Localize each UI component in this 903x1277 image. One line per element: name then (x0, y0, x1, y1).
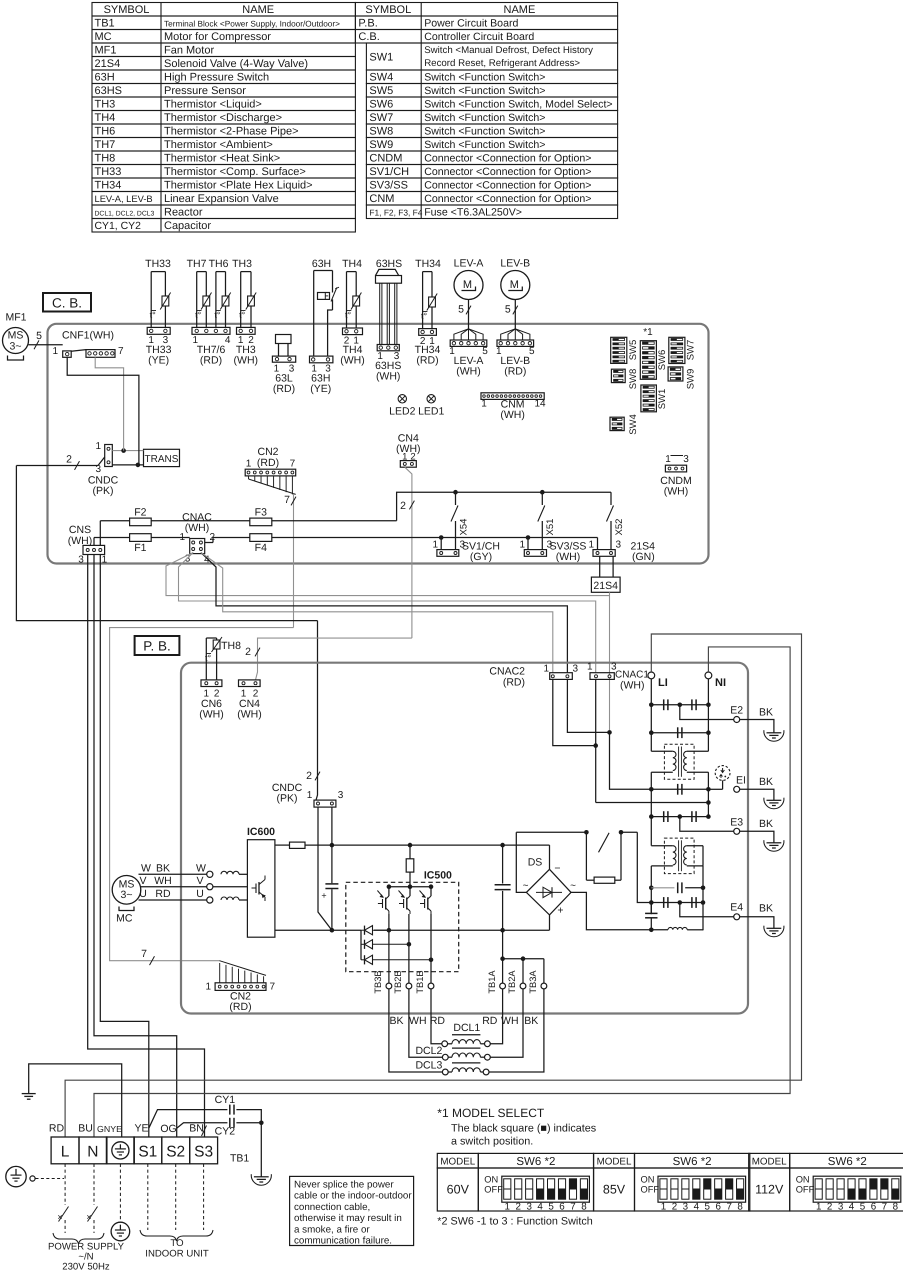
svg-text:3: 3 (338, 790, 344, 801)
svg-text:SW7: SW7 (369, 112, 393, 124)
svg-text:Switch <Function Switch>: Switch <Function Switch> (424, 72, 545, 84)
svg-text:TH6: TH6 (95, 126, 116, 138)
svg-text:*1 MODEL SELECT: *1 MODEL SELECT (437, 1106, 545, 1120)
ground at E3 (764, 837, 784, 851)
svg-text:Pressure Sensor: Pressure Sensor (164, 85, 246, 97)
svg-text:SYMBOL: SYMBOL (104, 4, 150, 16)
svg-text:7: 7 (882, 1202, 887, 1213)
svg-text:TH7: TH7 (95, 139, 116, 151)
svg-text:8: 8 (737, 1202, 743, 1213)
svg-text:(RD): (RD) (229, 1001, 251, 1013)
svg-text:X51: X51 (545, 519, 556, 536)
svg-text:2: 2 (827, 1202, 832, 1213)
svg-text:CNDM: CNDM (369, 153, 402, 165)
wire CNAC pin3 to CNAC1 pin1 (179, 553, 596, 673)
svg-text:F2: F2 (134, 507, 146, 519)
connector SV1/CH (GY) (432, 535, 500, 563)
svg-text:U: U (196, 888, 204, 900)
connector CNDC (PK) on P.B. (272, 782, 344, 807)
svg-text:+: + (321, 891, 326, 901)
svg-text:F3: F3 (255, 507, 267, 519)
svg-text:SW9: SW9 (686, 369, 697, 390)
ground below CY2 (251, 1171, 271, 1185)
svg-text:4: 4 (537, 1202, 543, 1213)
svg-text:(RD): (RD) (416, 354, 438, 366)
svg-text:(WH): (WH) (396, 443, 421, 455)
svg-text:1: 1 (505, 1202, 510, 1213)
svg-text:Never splice the power: Never splice the power (294, 1180, 394, 1191)
svg-text:t°: t° (421, 311, 428, 321)
svg-text:4: 4 (225, 335, 231, 346)
thermistor TH8 (205, 637, 241, 680)
C.B. label box (43, 293, 91, 312)
LED2 indicator (389, 395, 415, 418)
wire 2-line from left bus to CNDC (16, 454, 104, 470)
svg-text:21S4: 21S4 (95, 58, 121, 70)
connector CN2 (RD) on C.B. (245, 446, 296, 476)
IC500 output legs TB3B TB2B TB1B (373, 914, 434, 1030)
svg-text:N: N (87, 1144, 98, 1161)
svg-text:BK: BK (759, 776, 773, 788)
svg-text:MODEL: MODEL (752, 1156, 787, 1167)
svg-text:SW6 *2: SW6 *2 (828, 1156, 867, 1168)
svg-text:2: 2 (245, 646, 251, 658)
svg-text:W: W (196, 863, 206, 875)
svg-text:Controller Circuit Board: Controller Circuit Board (424, 31, 534, 43)
svg-text:5: 5 (458, 304, 464, 316)
svg-text:5: 5 (505, 304, 511, 316)
DIP switch SW7 (669, 337, 697, 363)
svg-text:SV3/SS: SV3/SS (369, 180, 408, 192)
svg-text:SW6 *2: SW6 *2 (516, 1156, 555, 1168)
svg-text:7: 7 (141, 948, 147, 960)
resistor feed to IC500 (406, 845, 414, 889)
svg-text:1: 1 (205, 982, 211, 993)
svg-text:1: 1 (246, 459, 252, 470)
svg-text:5: 5 (860, 1202, 866, 1213)
svg-text:RD: RD (155, 888, 171, 900)
svg-text:TB1: TB1 (95, 18, 115, 30)
svg-text:+: + (557, 905, 563, 917)
svg-text:TB3B: TB3B (373, 970, 383, 993)
svg-text:OFF: OFF (484, 1185, 503, 1195)
svg-text:BK: BK (759, 903, 773, 915)
svg-text:~: ~ (570, 881, 576, 892)
svg-text:WH: WH (154, 875, 172, 887)
svg-text:~: ~ (523, 881, 529, 892)
svg-text:The black square (■) indicates: The black square (■) indicates (451, 1123, 597, 1135)
svg-text:(WH): (WH) (376, 371, 401, 383)
svg-text:3: 3 (616, 540, 622, 551)
svg-text:U: U (139, 888, 147, 900)
svg-text:(WH): (WH) (500, 409, 525, 421)
svg-text:(YE): (YE) (310, 383, 331, 395)
svg-text:Connector <Connection for Opti: Connector <Connection for Option> (424, 193, 591, 205)
svg-text:M: M (510, 279, 519, 291)
svg-text:t°: t° (214, 310, 221, 320)
E3 earth tap (680, 817, 774, 838)
svg-text:SW8: SW8 (369, 126, 393, 138)
svg-text:BK: BK (759, 818, 773, 830)
connector CNDC (PK) on C.B. (88, 441, 119, 497)
svg-text:*2 SW6 -1 to 3 : Function Swi: *2 SW6 -1 to 3 : Function Switch (437, 1216, 592, 1228)
svg-text:63H: 63H (95, 72, 115, 84)
svg-text:BK: BK (759, 707, 773, 719)
svg-text:Switch <Function Switch>: Switch <Function Switch> (424, 139, 545, 151)
svg-text:Fan Motor: Fan Motor (164, 45, 214, 57)
output inductor (651, 927, 703, 930)
wire 21S4 box to CNAC1 pin3 (gray bus) (609, 592, 611, 732)
svg-text:7: 7 (270, 982, 276, 993)
svg-text:CNM: CNM (369, 193, 394, 205)
svg-text:6: 6 (871, 1202, 877, 1213)
svg-text:ON: ON (484, 1175, 498, 1185)
svg-text:Linear Expansion Valve: Linear Expansion Valve (164, 193, 279, 205)
terminal NI (705, 672, 726, 689)
svg-text:C.B.: C.B. (358, 31, 379, 43)
svg-text:Thermistor <Discharge>: Thermistor <Discharge> (164, 112, 282, 124)
svg-text:85V: 85V (603, 1183, 626, 1197)
svg-text:−: − (554, 863, 560, 875)
compressor motor MC MS 3~ (112, 876, 141, 925)
svg-text:6: 6 (559, 1202, 565, 1213)
svg-text:Motor for Compressor: Motor for Compressor (164, 31, 271, 43)
indoor unit dashed wiring (140, 1164, 213, 1260)
svg-text:IC500: IC500 (424, 870, 452, 882)
wire left bus from CNDC 2-line down to P.B. CNDC (16, 466, 320, 801)
circled earth below TB1 ground (111, 1164, 130, 1241)
model select table 60V (437, 1153, 593, 1212)
wire CNAC2 pin3 to 21S4 net (567, 679, 611, 734)
series capacitor on LI rail bottom (645, 903, 657, 933)
svg-text:CY1, CY2: CY1, CY2 (95, 221, 142, 232)
svg-text:SW1: SW1 (369, 52, 393, 64)
svg-text:6: 6 (715, 1202, 721, 1213)
connector TH7/6 (RD) (192, 327, 231, 366)
svg-text:Switch <Function Switch>: Switch <Function Switch> (424, 126, 545, 138)
expansion valve motor LEV-B (496, 258, 535, 378)
IC500 diodes (361, 926, 433, 965)
relay contact X54 (451, 490, 470, 550)
svg-text:L: L (61, 1144, 70, 1161)
wire AC to DS left (516, 832, 526, 892)
svg-text:DCL2: DCL2 (415, 1045, 442, 1057)
svg-text:YE: YE (134, 1123, 148, 1135)
svg-text:M: M (463, 279, 472, 291)
svg-text:1: 1 (816, 1202, 821, 1213)
svg-text:5: 5 (548, 1202, 554, 1213)
connector CNAC1 (WH) (587, 662, 649, 692)
wire CNF1 to CNDC junction (gray) (95, 357, 123, 450)
connector 21S4 (GN) (588, 538, 655, 564)
fuse F2 (130, 507, 152, 526)
connector CNAC (WH) (179, 512, 215, 566)
svg-text:TH34: TH34 (95, 180, 122, 192)
reactor DCL3 (389, 1030, 544, 1075)
svg-text:Power Circuit Board: Power Circuit Board (424, 18, 518, 30)
E4 earth tap (680, 902, 774, 923)
wire 21S4 net down to LI rail (610, 732, 652, 789)
circled earth left of TB1 (6, 1166, 64, 1186)
wire color labels BK WH RD / RD WH BK (389, 1015, 538, 1027)
svg-text:7: 7 (290, 459, 296, 470)
wire CNDC pin3 to DC rail (321, 807, 338, 930)
power circuit board outline P.B. (181, 663, 748, 1014)
resistor on DC minus rail (275, 842, 550, 848)
svg-text:60V: 60V (447, 1183, 470, 1197)
thermistor TH33 (145, 258, 171, 366)
svg-text:(RD): (RD) (273, 383, 295, 395)
capacitor row X4 (two caps) (651, 811, 708, 822)
wire CNS pin1 to S1 (100, 555, 149, 1138)
svg-text:LED1: LED1 (418, 406, 444, 418)
svg-text:1: 1 (665, 454, 671, 465)
svg-text:t°: t° (239, 310, 246, 320)
svg-text:CY2: CY2 (215, 1126, 236, 1138)
svg-text:1: 1 (661, 1202, 666, 1213)
CN4 bus wire down (400, 467, 414, 638)
svg-text:Switch <Function Switch>: Switch <Function Switch> (424, 112, 545, 124)
model select note (437, 1106, 596, 1148)
wire CNAC pin4 to CNAC2 pin1 (201, 553, 553, 673)
NI rail (706, 679, 711, 819)
diode bridge DS (523, 857, 577, 917)
svg-text:SW6: SW6 (657, 350, 668, 371)
svg-text:a smoke, a fire or: a smoke, a fire or (294, 1224, 370, 1235)
svg-text:TH33: TH33 (145, 258, 171, 270)
svg-text:5: 5 (36, 330, 42, 342)
function switch note (437, 1216, 592, 1228)
svg-text:TB1B: TB1B (415, 970, 425, 993)
svg-text:P. B.: P. B. (143, 639, 171, 654)
svg-text:BK: BK (156, 863, 170, 875)
svg-text:TH8: TH8 (95, 153, 116, 165)
capacitor row X1 (two caps) (651, 699, 708, 710)
relay contact X51 (538, 490, 556, 550)
DIP switch SW4 (610, 414, 639, 435)
svg-text:3: 3 (526, 1202, 532, 1213)
svg-text:NAME: NAME (504, 4, 536, 16)
thermistor TH34 (415, 258, 441, 366)
svg-text:Thermistor <Plate Hex Liquid>: Thermistor <Plate Hex Liquid> (164, 180, 313, 192)
svg-text:Terminal Block <Power Supply,: Terminal Block <Power Supply, Indoor/Out… (164, 20, 340, 29)
svg-text:4: 4 (849, 1202, 855, 1213)
svg-text:LEV-A, LEV-B: LEV-A, LEV-B (95, 194, 153, 204)
svg-text:8: 8 (893, 1202, 899, 1213)
svg-text:E3: E3 (730, 817, 743, 829)
connector CN6 (WH) (199, 680, 224, 721)
svg-text:X54: X54 (459, 519, 470, 536)
svg-text:X52: X52 (614, 519, 625, 536)
smoothing capacitor (495, 845, 511, 930)
ground at EI (764, 795, 784, 809)
svg-text:GNYE: GNYE (97, 1124, 122, 1134)
svg-text:(WH): (WH) (456, 366, 481, 378)
wire NI wrap to TB1 N (94, 647, 790, 1137)
svg-text:Thermistor <2-Phase Pipe>: Thermistor <2-Phase Pipe> (164, 126, 299, 138)
svg-text:BK: BK (524, 1015, 538, 1027)
connector CN4 (WH) on C.B. (396, 433, 421, 468)
E2 earth tap (680, 705, 774, 728)
svg-text:RD: RD (49, 1123, 65, 1135)
svg-text:SW6 *2: SW6 *2 (673, 1156, 712, 1168)
svg-text:5: 5 (705, 1202, 711, 1213)
svg-text:OFF: OFF (796, 1185, 815, 1195)
svg-text:RD: RD (430, 1015, 446, 1027)
svg-text:t°: t° (345, 310, 352, 320)
svg-text:E4: E4 (730, 902, 743, 914)
terminal LI (648, 672, 668, 689)
ground at E2 (764, 727, 784, 741)
svg-text:SV1/CH: SV1/CH (369, 166, 409, 178)
svg-text:Thermistor <Liquid>: Thermistor <Liquid> (164, 99, 262, 111)
svg-text:RD: RD (482, 1015, 498, 1027)
svg-text:E2: E2 (730, 705, 743, 717)
svg-text:SW6: SW6 (369, 99, 393, 111)
svg-text:t°: t° (205, 653, 212, 663)
svg-text:Connector <Connection for Opti: Connector <Connection for Option> (424, 153, 591, 165)
svg-text:230V 50Hz: 230V 50Hz (62, 1262, 110, 1273)
svg-text:1: 1 (102, 555, 108, 566)
svg-text:(PK): (PK) (93, 485, 114, 497)
fan motor MF1 MS 3~ (3, 312, 43, 361)
svg-text:Capacitor: Capacitor (164, 220, 211, 232)
svg-text:MC: MC (95, 31, 112, 43)
svg-text:ON: ON (641, 1175, 655, 1185)
svg-text:Connector <Connection for Opti: Connector <Connection for Option> (424, 180, 591, 192)
svg-text:cable or the indoor-outdoor: cable or the indoor-outdoor (294, 1191, 412, 1202)
svg-text:3: 3 (683, 454, 689, 465)
wire MF1 to CNF1 (29, 340, 63, 349)
svg-text:TH7: TH7 (187, 258, 207, 270)
svg-text:INDOOR UNIT: INDOOR UNIT (145, 1249, 209, 1260)
svg-text:V: V (139, 875, 146, 887)
power supply dashed wiring (48, 1164, 125, 1273)
svg-text:*1: *1 (643, 327, 653, 338)
svg-text:1: 1 (519, 540, 525, 551)
svg-text:14: 14 (534, 399, 546, 410)
svg-text:TB2B: TB2B (393, 970, 403, 993)
svg-text:2: 2 (672, 1202, 677, 1213)
model select table 85V (594, 1153, 750, 1212)
svg-text:TH4: TH4 (95, 112, 116, 124)
svg-text:communication failure.: communication failure. (294, 1236, 392, 1247)
IC500 transistors (377, 884, 433, 914)
wire CNF1 pin1 to TRANS junction (67, 357, 139, 465)
svg-text:SW4: SW4 (628, 414, 639, 435)
relay contact X52 (607, 492, 626, 549)
svg-text:WH: WH (409, 1015, 427, 1027)
svg-text:TH34: TH34 (415, 258, 441, 270)
connector CNAC2 (RD) (489, 664, 578, 689)
CN2 fan bus (7 wires) (249, 476, 296, 628)
svg-text:TB1: TB1 (230, 1153, 249, 1165)
capacitor row X2 (single cap) (651, 727, 708, 738)
svg-text:S1: S1 (138, 1144, 157, 1161)
LI rail (649, 679, 654, 914)
svg-text:3: 3 (683, 1202, 689, 1213)
connector CNF1 (WH) (52, 330, 124, 358)
svg-text:EI: EI (736, 775, 746, 787)
connector SV3/SS (WH) (519, 535, 586, 563)
svg-text:S3: S3 (194, 1144, 213, 1161)
svg-text:TH33: TH33 (95, 166, 122, 178)
svg-text:TH3: TH3 (95, 99, 116, 111)
wire CNS pin3 to S3 (88, 555, 207, 1138)
transformer TRANS box (144, 449, 180, 466)
svg-text:(WH): (WH) (234, 354, 259, 366)
svg-text:×: × (57, 1212, 62, 1222)
ground wire to TB1 earth terminal (29, 1064, 122, 1137)
common mode transformer T1 (651, 744, 708, 779)
svg-text:F1, F2, F3, F4: F1, F2, F3, F4 (369, 208, 422, 218)
warning note box (290, 1176, 414, 1246)
svg-text:3~: 3~ (10, 341, 22, 353)
svg-text:ON: ON (796, 1175, 810, 1185)
capacitor CY2 (177, 1118, 264, 1171)
svg-text:7: 7 (118, 346, 124, 357)
svg-text:2: 2 (515, 1202, 520, 1213)
svg-text:DS: DS (528, 857, 543, 869)
svg-text:SW5: SW5 (628, 340, 639, 361)
svg-text:(WH): (WH) (199, 709, 224, 721)
inrush bypass relay contact (516, 830, 651, 903)
svg-text:1: 1 (587, 662, 593, 673)
wire CN2 bus to P.B. CN2 (110, 628, 294, 966)
pressure sensor 63HS (375, 258, 402, 383)
svg-text:Switch <Function Switch, Model: Switch <Function Switch, Model Select> (424, 99, 612, 111)
expansion valve motor LEV-A (449, 258, 488, 378)
svg-text:TH4: TH4 (342, 258, 362, 270)
thermistor TH4 (340, 258, 365, 366)
svg-text:OG: OG (160, 1123, 176, 1135)
wire DC minus to DS top (549, 845, 551, 869)
capacitor row X3 + EI arrester (651, 784, 722, 795)
connector CN4 (WH) on P.B. (237, 680, 262, 721)
ground at E4 (764, 923, 784, 937)
svg-text:OFF: OFF (641, 1185, 660, 1195)
svg-text:TO: TO (170, 1238, 183, 1249)
fuse F1 (130, 534, 152, 554)
svg-text:7: 7 (726, 1202, 731, 1213)
svg-text:TRANS: TRANS (145, 454, 179, 465)
wire upper AC rail with F2 F3 (100, 492, 611, 545)
LED1 indicator (418, 395, 444, 418)
svg-text:TH8: TH8 (221, 640, 241, 652)
connector CNS (WH) (68, 524, 108, 566)
svg-text:(RD): (RD) (257, 457, 279, 469)
svg-text:(GY): (GY) (470, 551, 492, 563)
svg-text:(PK): (PK) (277, 793, 298, 805)
switch 63L (272, 335, 295, 395)
svg-text:SW4: SW4 (369, 72, 393, 84)
svg-text:SW5: SW5 (369, 85, 393, 97)
svg-text:CNF1(WH): CNF1(WH) (62, 330, 114, 342)
high pressure switch 63H (310, 258, 340, 395)
svg-text:MODEL: MODEL (440, 1156, 475, 1167)
svg-text:Reactor: Reactor (164, 207, 203, 219)
svg-text:(WH): (WH) (237, 709, 262, 721)
thermistor TH3 (232, 258, 258, 366)
svg-text:(WH): (WH) (340, 354, 365, 366)
wire color labels above TB1 (49, 1123, 204, 1136)
svg-text:3: 3 (838, 1202, 844, 1213)
svg-text:2: 2 (66, 454, 72, 466)
svg-text:NI: NI (715, 677, 726, 689)
svg-text:2: 2 (306, 770, 312, 782)
svg-text:3: 3 (573, 664, 579, 675)
svg-text:Switch <Function Switch>: Switch <Function Switch> (424, 85, 545, 97)
